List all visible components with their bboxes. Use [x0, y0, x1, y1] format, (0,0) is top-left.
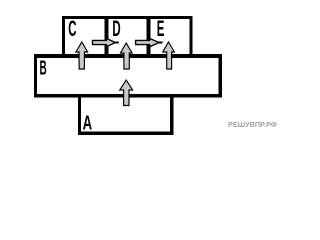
- horizontal arrow D to E: [136, 38, 163, 46]
- top row box containing C D E: [62, 16, 193, 57]
- up arrow A to B: [120, 80, 133, 106]
- up arrow B to D: [120, 43, 132, 69]
- box B: [34, 54, 222, 97]
- up arrow B to C: [76, 42, 88, 69]
- svg-text:B: B: [40, 58, 47, 80]
- svg-text:C: C: [68, 16, 76, 41]
- svg-text:РЕШУВПР.РФ: РЕШУВПР.РФ: [228, 120, 277, 129]
- svg-text:E: E: [157, 16, 165, 41]
- svg-text:A: A: [83, 112, 93, 134]
- horizontal arrow C to D: [93, 38, 119, 46]
- divider D|E: [146, 16, 150, 58]
- svg-text:D: D: [112, 16, 120, 41]
- up arrow B to E: [163, 42, 175, 69]
- box A: [78, 96, 174, 135]
- divider C|D: [104, 16, 108, 58]
